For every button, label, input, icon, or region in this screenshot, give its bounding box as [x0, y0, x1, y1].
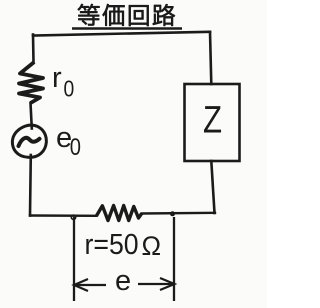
svg-text:r=50: r=50 [85, 228, 139, 260]
AC source e0 (circle) [12, 125, 46, 157]
svg-text:0: 0 [64, 77, 75, 102]
dimension arrow left [76, 284, 106, 286]
junction dot left [71, 215, 75, 219]
svg-text:e: e [115, 265, 131, 297]
dimension line left vertical [73, 217, 75, 301]
wire: source to bottom-left corner [29, 155, 32, 216]
wire: bottom right segment [142, 212, 215, 215]
impedance box Z [185, 84, 240, 161]
wire: resistor to source [31, 103, 32, 129]
wire: top horizontal [33, 32, 210, 36]
dimension line right vertical [173, 217, 175, 301]
svg-text:Z: Z [203, 99, 222, 141]
svg-text:0: 0 [70, 133, 81, 160]
wire: right rail lower [211, 161, 214, 213]
resistor r=50 ohm (horizontal zigzag) [97, 206, 142, 221]
wire: right rail upper [210, 32, 211, 84]
svg-text:Ω: Ω [142, 231, 162, 261]
wire: left rail upper [32, 35, 35, 63]
junction dot right [170, 211, 175, 216]
resistor r0 (vertical zigzag) [19, 62, 43, 103]
title underline [72, 27, 182, 29]
AC source sine symbol [19, 138, 40, 146]
wire: bottom left segment [30, 214, 97, 217]
dimension arrow right [138, 283, 172, 285]
title 等価回路 [78, 4, 100, 25]
svg-text:r: r [52, 62, 62, 94]
